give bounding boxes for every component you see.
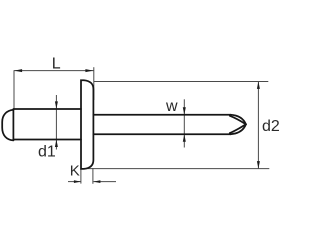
arrowhead: d1 top (points down) bbox=[55, 101, 58, 109]
svg-text:w: w bbox=[165, 98, 178, 115]
mandrel tip inner chevron top bbox=[230, 116, 246, 125]
wire: d2 dimension line bbox=[257, 81, 259, 169]
arrowhead: d1 bottom (points up) bbox=[55, 140, 58, 148]
wire: d2 bottom extension line bbox=[81, 168, 269, 170]
arrowhead: d2 top (points up) bbox=[257, 81, 260, 88]
rivet body bottom edge bbox=[13, 139, 81, 141]
arrowhead: w bottom (points up) bbox=[183, 134, 186, 142]
wire: L left extension line bbox=[13, 70, 15, 109]
rivet flange (dome head) outline bbox=[81, 80, 93, 169]
arrowhead: d2 bottom (points down) bbox=[257, 161, 260, 169]
wire: K right extension line bbox=[92, 168, 94, 184]
arrowhead: L right bbox=[85, 69, 93, 72]
wire: d2 top extension line bbox=[94, 80, 268, 82]
arrowhead: w top (points down) bbox=[183, 107, 186, 115]
arrowhead: K right (points left) bbox=[93, 180, 100, 183]
svg-text:d1: d1 bbox=[38, 144, 56, 161]
wire: K dimension line left tail bbox=[68, 181, 81, 183]
mandrel tip outline bottom curve bbox=[231, 124, 246, 134]
wire: K left extension line bbox=[80, 169, 82, 184]
wire: w dimension line bbox=[183, 99, 185, 147]
rivet body left junction line bbox=[12, 109, 14, 140]
wire: d1 dimension line bbox=[55, 95, 57, 150]
rivet body top edge bbox=[13, 108, 81, 110]
rivet mandrel head dome (left cap) bbox=[2, 110, 13, 141]
mandrel tip inner chevron bottom bbox=[230, 124, 246, 133]
svg-text:d2: d2 bbox=[262, 118, 280, 135]
mandrel tip outline top curve bbox=[231, 115, 246, 125]
arrowhead: L left bbox=[14, 69, 22, 72]
arrowhead: K left (points right) bbox=[74, 180, 81, 183]
wire: L right extension line bbox=[93, 67, 95, 100]
wire: K dimension line right tail bbox=[93, 181, 116, 183]
svg-text:L: L bbox=[52, 56, 61, 73]
mandrel stem top edge bbox=[93, 114, 230, 116]
svg-text:K: K bbox=[70, 163, 80, 180]
wire: L dimension line bbox=[14, 70, 93, 72]
mandrel stem bottom edge bbox=[93, 133, 230, 135]
